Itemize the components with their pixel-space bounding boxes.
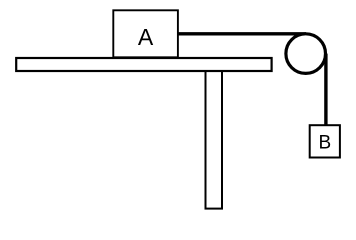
svg-text:A: A bbox=[138, 24, 154, 50]
block B bbox=[310, 125, 340, 157]
svg-text:B: B bbox=[318, 132, 331, 153]
table leg bbox=[206, 65, 223, 209]
wire rope horizontal from A to pulley bbox=[178, 32, 307, 35]
wire rope vertical from pulley to B bbox=[324, 54, 327, 126]
pulley bbox=[286, 34, 326, 74]
table top bbox=[16, 58, 271, 71]
block A bbox=[113, 10, 178, 57]
